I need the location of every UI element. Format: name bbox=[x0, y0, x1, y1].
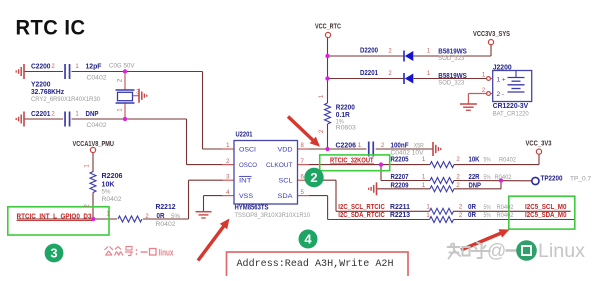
svg-text:RTCIC_INT_L_GPIO0_D3: RTCIC_INT_L_GPIO0_D3 bbox=[17, 213, 92, 220]
svg-text:R2211: R2211 bbox=[390, 204, 410, 211]
svg-text:U2201: U2201 bbox=[236, 131, 253, 138]
svg-text:100nF: 100nF bbox=[391, 142, 410, 149]
svg-text:RTC IC: RTC IC bbox=[16, 16, 86, 40]
svg-text:VSS: VSS bbox=[239, 193, 254, 200]
svg-text:R2206: R2206 bbox=[102, 173, 123, 180]
svg-text:C2206: C2206 bbox=[336, 143, 357, 150]
svg-text:I2C5_SDA_M0: I2C5_SDA_M0 bbox=[525, 212, 567, 219]
svg-text:R2205: R2205 bbox=[391, 156, 409, 163]
svg-text:0R: 0R bbox=[157, 213, 165, 220]
svg-text:5%: 5% bbox=[484, 174, 491, 181]
svg-text:R2209: R2209 bbox=[391, 182, 409, 189]
svg-text:C0402 10V: C0402 10V bbox=[391, 149, 424, 156]
svg-text:TSSOP8_3R10X3R10X1R10: TSSOP8_3R10X3R10X1R10 bbox=[235, 212, 311, 219]
svg-text:VCC_RTC: VCC_RTC bbox=[315, 24, 341, 31]
svg-text:DNP: DNP bbox=[86, 111, 99, 118]
svg-text:linux: linux bbox=[159, 248, 174, 258]
svg-text:R0402: R0402 bbox=[495, 174, 512, 181]
svg-text:SCL: SCL bbox=[279, 178, 293, 185]
svg-text:22R: 22R bbox=[469, 174, 480, 181]
svg-text:0R: 0R bbox=[468, 212, 476, 219]
svg-text:5%: 5% bbox=[484, 204, 491, 211]
svg-text:R0402: R0402 bbox=[497, 212, 514, 219]
svg-text:R0603: R0603 bbox=[336, 125, 356, 132]
svg-text:32.768KHz: 32.768KHz bbox=[31, 89, 64, 96]
svg-text:I2C_SCL_RTCIC: I2C_SCL_RTCIC bbox=[338, 204, 385, 211]
svg-text:C0402: C0402 bbox=[87, 75, 107, 82]
svg-text:VDD: VDD bbox=[278, 147, 293, 154]
svg-text:OSCO: OSCO bbox=[239, 162, 257, 169]
svg-text:I2C_SDA_RTCIC: I2C_SDA_RTCIC bbox=[338, 212, 385, 219]
svg-text:R2200: R2200 bbox=[336, 104, 355, 111]
svg-text:2: 2 bbox=[310, 170, 317, 185]
svg-text:VCC_3V3: VCC_3V3 bbox=[526, 141, 552, 148]
svg-text:R0402: R0402 bbox=[102, 196, 122, 203]
svg-text:R0402: R0402 bbox=[499, 156, 516, 163]
svg-text:5%: 5% bbox=[171, 213, 180, 220]
svg-text:BAT_CR1220: BAT_CR1220 bbox=[493, 110, 529, 117]
svg-text:TP_0.7: TP_0.7 bbox=[570, 176, 591, 183]
svg-text:0R: 0R bbox=[468, 204, 476, 211]
svg-text:INT: INT bbox=[239, 178, 252, 185]
svg-text:VCCA1V8_PMU: VCCA1V8_PMU bbox=[73, 141, 115, 148]
svg-text:10K: 10K bbox=[469, 156, 480, 163]
svg-text:D2201: D2201 bbox=[360, 70, 378, 77]
svg-text:R2213: R2213 bbox=[390, 212, 410, 219]
svg-text:2 -: 2 - bbox=[497, 91, 505, 98]
svg-text:HYM8563TS: HYM8563TS bbox=[235, 205, 269, 212]
svg-text:C0402: C0402 bbox=[87, 122, 107, 129]
svg-text:3: 3 bbox=[50, 246, 57, 261]
svg-text:J2200: J2200 bbox=[493, 64, 512, 71]
svg-text:SDA: SDA bbox=[278, 193, 294, 200]
svg-text:CLKOUT: CLKOUT bbox=[266, 162, 293, 169]
svg-text:D2200: D2200 bbox=[360, 48, 378, 55]
svg-text:CR1220-3V: CR1220-3V bbox=[493, 103, 529, 110]
svg-text:R2207: R2207 bbox=[391, 174, 409, 181]
svg-text:5%: 5% bbox=[484, 156, 491, 163]
svg-text:@: @ bbox=[487, 241, 506, 262]
svg-text:1 +: 1 + bbox=[497, 77, 506, 84]
svg-text:VCC3V3_SYS: VCC3V3_SYS bbox=[473, 31, 510, 38]
svg-text:Y2200: Y2200 bbox=[31, 82, 51, 89]
svg-text:C0G 50V: C0G 50V bbox=[109, 63, 135, 70]
svg-text:10K: 10K bbox=[102, 181, 115, 188]
svg-text:DNP: DNP bbox=[469, 182, 482, 189]
svg-text:CRY2_6R90X1R40X1R30: CRY2_6R90X1R40X1R30 bbox=[31, 96, 100, 103]
svg-text:I2C5_SCL_M0: I2C5_SCL_M0 bbox=[525, 204, 567, 211]
svg-text:12pF: 12pF bbox=[86, 64, 103, 71]
svg-text:R2212: R2212 bbox=[156, 204, 176, 211]
svg-text:4: 4 bbox=[304, 232, 312, 247]
svg-text:C2200: C2200 bbox=[31, 64, 51, 71]
svg-text:SOD_323: SOD_323 bbox=[438, 80, 464, 87]
svg-text:R0402: R0402 bbox=[156, 221, 176, 228]
svg-text:OSCI: OSCI bbox=[239, 147, 256, 154]
svg-text:5%: 5% bbox=[484, 212, 491, 219]
svg-text:C2201: C2201 bbox=[31, 111, 51, 118]
svg-text:RTCIC_32KOUT: RTCIC_32KOUT bbox=[330, 157, 374, 164]
svg-text:Address:Read A3H,Write A2H: Address:Read A3H,Write A2H bbox=[237, 258, 394, 270]
svg-text:TP2200: TP2200 bbox=[541, 176, 563, 183]
svg-text:SOD_323: SOD_323 bbox=[438, 55, 464, 62]
svg-text:Linux: Linux bbox=[538, 241, 586, 262]
svg-text:R0402: R0402 bbox=[497, 204, 514, 211]
svg-text:X5R: X5R bbox=[414, 142, 424, 149]
svg-text:5%: 5% bbox=[102, 188, 111, 195]
